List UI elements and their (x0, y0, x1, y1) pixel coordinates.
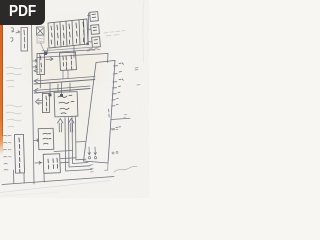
PC box D (43, 154, 60, 174)
big box right edge continuation hook (105, 163, 108, 170)
arrow into D (35, 161, 42, 164)
lower pin ticks and labels (111, 100, 115, 129)
tiny marks near box bottom right (112, 129, 118, 154)
left arrowhead y70 (34, 69, 38, 72)
longer wire right at y119 (111, 118, 130, 119)
cluster sideways text squiggles (51, 26, 52, 44)
page right crease (143, 0, 144, 62)
pins inside big box bottom (88, 147, 91, 159)
wire W0 below cluster (42, 47, 95, 51)
diagonal scribble bottom right (114, 166, 137, 172)
nested wire corners to big box (65, 118, 92, 172)
bus pair 2 (34, 86, 90, 91)
IR narrow box (37, 54, 45, 75)
small arrow to status box (16, 31, 20, 33)
double arrow between boxes (46, 58, 53, 61)
arrow into C (34, 139, 39, 142)
faint scribble upper-left margin (6, 67, 22, 87)
page bottom edge faint (0, 181, 110, 193)
faint text row far right top (104, 31, 125, 36)
handwriting stack left margin (3, 135, 11, 138)
pin labels tiny (118, 63, 124, 93)
interface tall box bottom-left (14, 134, 24, 173)
ALU control box B (54, 92, 78, 117)
cluster drop wires (47, 48, 49, 54)
tiny text above big box (87, 48, 100, 51)
handwriting 8a lower (11, 38, 14, 42)
driver squares (48, 94, 51, 97)
wire W2 long, corner down into big box top (37, 54, 108, 63)
faint scribble mid-left (6, 105, 22, 127)
paper noise (0, 0, 149, 198)
junction square (87, 43, 89, 45)
horizontal joins lower (54, 151, 73, 152)
frame bottom border (2, 177, 114, 185)
hollow arrow left of MDR (36, 99, 43, 105)
hollow up arrows below B (58, 119, 64, 133)
small box right mid (91, 25, 100, 35)
decoder drops (63, 70, 68, 79)
MDR narrow box (43, 94, 50, 113)
status register narrow box (left, sideways text) (21, 28, 28, 52)
register file cluster (48, 19, 88, 48)
frame left vertical line (32, 25, 35, 184)
bus arrowhead left (34, 79, 38, 83)
wire below cluster W1 (40, 50, 95, 54)
tiny text below pins (90, 165, 93, 172)
control box C (38, 128, 54, 150)
tiny text right of box far (135, 68, 140, 85)
cluster extra divider right (84, 19, 85, 44)
bus pair 1 (34, 77, 95, 82)
arrows into IR from frame (33, 60, 37, 63)
handwriting 8a top (11, 28, 14, 32)
side vertical tiny text on edge (108, 109, 111, 117)
wire from X box to junction (41, 43, 45, 52)
junction square dark (44, 52, 47, 55)
small box top-right of cluster (PC) (90, 12, 99, 22)
wire vertical right of cluster (87, 13, 90, 45)
small box interior marks (92, 14, 98, 43)
faint warm smudge over drawing (26, 18, 106, 102)
small box right lower (92, 37, 101, 48)
drops from buses (39, 74, 41, 88)
lower wire drops to border (13, 170, 15, 184)
faint box below X box (37, 36, 44, 44)
pin ticks on big box right edge (112, 66, 117, 94)
decoder box (60, 52, 77, 70)
big memory box on right (84, 61, 116, 164)
small X box below badge (37, 27, 45, 35)
